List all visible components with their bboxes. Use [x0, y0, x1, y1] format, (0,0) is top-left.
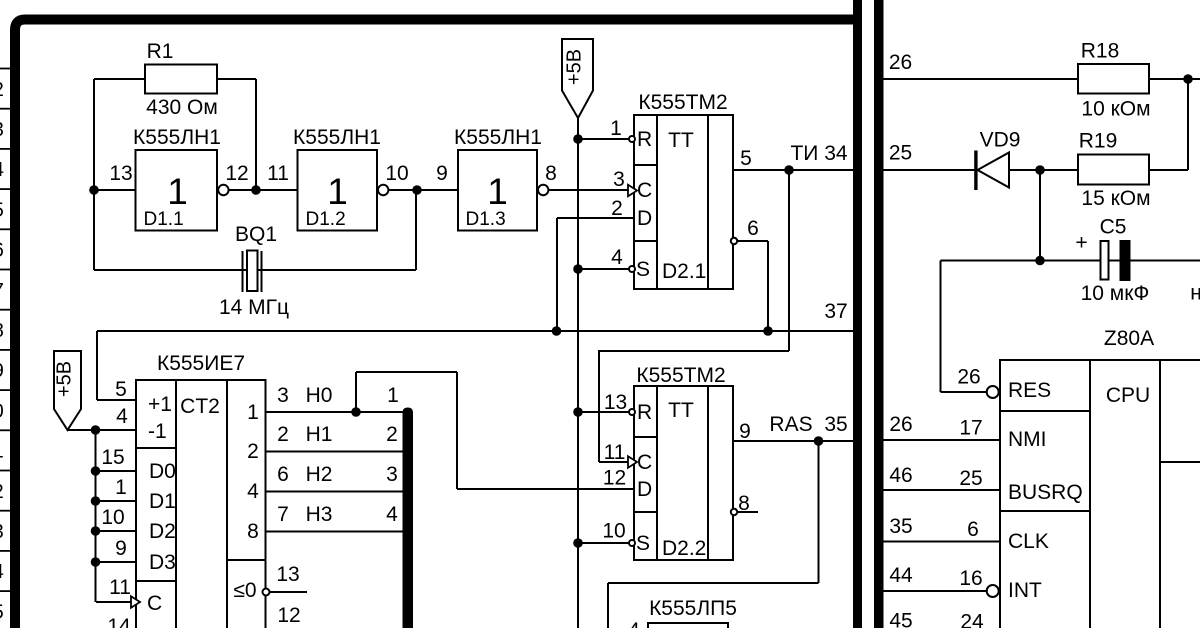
svg-text:26: 26 — [957, 366, 980, 389]
svg-text:К555ИЕ7: К555ИЕ7 — [157, 352, 245, 375]
svg-text:10: 10 — [385, 162, 408, 185]
svg-text:2: 2 — [611, 197, 623, 220]
svg-text:D0: D0 — [149, 460, 176, 483]
svg-text:9: 9 — [115, 537, 127, 560]
svg-text:13: 13 — [109, 162, 132, 185]
svg-text:R19: R19 — [1079, 130, 1118, 153]
svg-text:11: 11 — [109, 576, 131, 599]
svg-text:8: 8 — [247, 520, 259, 543]
svg-text:К555ТМ2: К555ТМ2 — [636, 364, 725, 387]
svg-text:3: 3 — [386, 463, 398, 486]
svg-text:24: 24 — [960, 611, 984, 628]
svg-text:BUSRQ: BUSRQ — [1008, 481, 1083, 504]
svg-text:17: 17 — [959, 417, 982, 440]
svg-text:10 кОм: 10 кОм — [1081, 98, 1150, 121]
svg-text:12: 12 — [0, 481, 4, 503]
svg-text:VD9: VD9 — [980, 129, 1021, 152]
svg-text:8: 8 — [738, 492, 750, 515]
svg-text:H2: H2 — [306, 463, 333, 486]
svg-text:14 МГц: 14 МГц — [219, 296, 289, 319]
svg-text:7: 7 — [0, 280, 4, 302]
svg-text:6: 6 — [0, 240, 4, 262]
svg-text:14: 14 — [107, 615, 131, 628]
svg-text:К555ЛН1: К555ЛН1 — [454, 126, 542, 149]
svg-text:3: 3 — [613, 168, 625, 191]
svg-text:9: 9 — [0, 360, 4, 382]
svg-text:ТТ: ТТ — [668, 399, 694, 422]
svg-text:10 мкФ: 10 мкФ — [1081, 282, 1150, 305]
svg-text:C: C — [637, 451, 652, 474]
svg-text:≤0: ≤0 — [233, 579, 256, 602]
svg-text:12: 12 — [225, 162, 248, 185]
svg-text:37: 37 — [824, 300, 847, 323]
svg-text:D: D — [637, 478, 652, 501]
svg-text:CT2: CT2 — [180, 395, 220, 418]
svg-text:1: 1 — [387, 384, 399, 407]
svg-text:H3: H3 — [306, 503, 333, 526]
svg-text:D1.3: D1.3 — [466, 209, 506, 230]
svg-text:13: 13 — [276, 563, 299, 586]
svg-text:5: 5 — [115, 378, 127, 401]
svg-text:CLK: CLK — [1008, 530, 1049, 553]
svg-text:C5: C5 — [1100, 216, 1127, 239]
svg-text:4: 4 — [386, 503, 398, 526]
svg-text:1: 1 — [115, 476, 127, 499]
svg-text:6: 6 — [747, 217, 759, 240]
svg-text:25: 25 — [889, 142, 912, 165]
svg-text:35: 35 — [824, 413, 847, 436]
svg-text:BQ1: BQ1 — [235, 223, 277, 246]
svg-text:2: 2 — [277, 423, 289, 446]
svg-text:4: 4 — [116, 405, 128, 428]
svg-text:11: 11 — [0, 441, 4, 463]
svg-text:25: 25 — [959, 467, 982, 490]
svg-text:D1: D1 — [149, 490, 176, 513]
svg-text:2: 2 — [386, 423, 398, 446]
svg-text:1: 1 — [167, 171, 188, 212]
svg-text:7: 7 — [277, 503, 289, 526]
svg-text:6: 6 — [277, 463, 289, 486]
svg-text:R: R — [637, 401, 652, 424]
svg-text:R: R — [637, 128, 652, 151]
svg-text:4: 4 — [611, 246, 623, 269]
svg-text:15: 15 — [101, 446, 124, 469]
svg-text:15: 15 — [0, 601, 4, 623]
svg-text:5: 5 — [740, 147, 752, 170]
svg-text:46: 46 — [889, 464, 912, 487]
svg-text:D2.2: D2.2 — [662, 537, 706, 560]
svg-text:5: 5 — [0, 199, 4, 221]
svg-text:26: 26 — [889, 51, 912, 74]
svg-text:C: C — [147, 592, 162, 615]
svg-text:4: 4 — [628, 619, 640, 628]
svg-text:CPU: CPU — [1106, 384, 1150, 407]
svg-text:H0: H0 — [306, 384, 333, 407]
svg-text:3: 3 — [0, 119, 4, 141]
svg-text:430 Ом: 430 Ом — [146, 96, 218, 119]
svg-text:11: 11 — [267, 162, 289, 185]
svg-text:16: 16 — [959, 567, 982, 590]
svg-text:10: 10 — [0, 400, 4, 422]
svg-text:ТИ 34: ТИ 34 — [790, 142, 847, 165]
svg-text:RES: RES — [1008, 379, 1051, 402]
svg-text:D1.2: D1.2 — [306, 209, 346, 230]
svg-text:13: 13 — [0, 521, 4, 543]
svg-text:C: C — [637, 179, 652, 202]
svg-text:-1: -1 — [148, 420, 167, 443]
svg-text:1: 1 — [610, 117, 622, 140]
svg-text:+1: +1 — [148, 393, 172, 416]
svg-text:13: 13 — [604, 391, 627, 414]
svg-text:12: 12 — [277, 604, 300, 627]
svg-text:S: S — [636, 258, 650, 281]
svg-text:1: 1 — [247, 401, 259, 424]
svg-text:D2: D2 — [149, 520, 176, 543]
svg-text:H1: H1 — [306, 423, 333, 446]
svg-text:К555ТМ2: К555ТМ2 — [638, 91, 727, 114]
svg-text:26: 26 — [889, 413, 912, 436]
svg-text:К555ЛП5: К555ЛП5 — [649, 597, 737, 620]
svg-text:INT: INT — [1008, 579, 1042, 602]
svg-text:К555ЛН1: К555ЛН1 — [293, 126, 381, 149]
svg-text:К555ЛН1: К555ЛН1 — [133, 126, 221, 149]
svg-text:R18: R18 — [1081, 40, 1120, 63]
svg-text:10: 10 — [602, 520, 625, 543]
svg-text:44: 44 — [889, 564, 913, 587]
svg-text:D2.1: D2.1 — [662, 260, 706, 283]
svg-text:2: 2 — [0, 79, 4, 101]
svg-text:11: 11 — [604, 441, 626, 464]
svg-text:ТТ: ТТ — [668, 129, 694, 152]
svg-text:н: н — [1190, 282, 1200, 305]
svg-text:45: 45 — [889, 610, 912, 628]
svg-text:2: 2 — [247, 440, 259, 463]
svg-text:1: 1 — [487, 171, 508, 212]
svg-text:8: 8 — [545, 162, 557, 185]
svg-text:9: 9 — [739, 420, 751, 443]
svg-text:+5В: +5В — [564, 49, 586, 85]
svg-text:NMI: NMI — [1008, 428, 1047, 451]
svg-text:10: 10 — [101, 506, 124, 529]
svg-text:S: S — [636, 532, 650, 555]
svg-text:15 кОм: 15 кОм — [1081, 187, 1150, 210]
svg-text:3: 3 — [277, 384, 289, 407]
svg-text:R1: R1 — [147, 40, 174, 63]
svg-text:12: 12 — [603, 467, 626, 490]
svg-text:+: + — [1075, 232, 1087, 255]
svg-text:+5В: +5В — [54, 361, 76, 397]
svg-text:6: 6 — [967, 518, 979, 541]
svg-text:1: 1 — [327, 171, 348, 212]
svg-text:35: 35 — [889, 515, 912, 538]
svg-text:4: 4 — [247, 480, 259, 503]
svg-text:4: 4 — [0, 159, 4, 181]
svg-text:14: 14 — [0, 561, 4, 583]
svg-text:RAS: RAS — [769, 413, 812, 436]
svg-text:8: 8 — [0, 320, 4, 342]
svg-text:9: 9 — [436, 162, 448, 185]
svg-text:D: D — [637, 207, 652, 230]
svg-text:D3: D3 — [149, 551, 176, 574]
svg-text:D1.1: D1.1 — [144, 209, 184, 230]
svg-text:Z80A: Z80A — [1104, 327, 1154, 350]
